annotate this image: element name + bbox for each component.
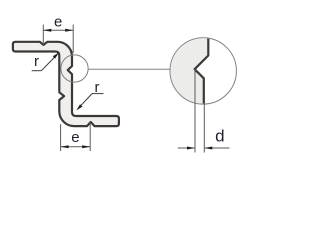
leader r (bottom bend) [92,93,104,95]
d dimension line (outside arrows) [178,147,195,149]
detail view big circle [170,38,236,104]
connector line to detail view [88,68,170,70]
svg-text:d: d [215,126,224,145]
d dimension extension lines [194,69,196,152]
detail marker small circle [61,55,88,82]
top e dimension line [43,29,73,31]
svg-text:r: r [34,53,39,70]
top e dimension: extension lines [42,25,44,45]
svg-text:r: r [95,79,100,96]
svg-text:e: e [71,129,79,146]
leader r (top bend) [32,70,42,72]
svg-text:e: e [54,13,62,30]
top e arrows [43,29,51,32]
bottom e dimension: extension lines [60,124,62,151]
bottom e arrows [61,145,69,148]
detail edge line with notch [195,38,209,104]
bottom e dimension line [61,146,91,148]
sheet-metal Z-profile [13,42,119,126]
